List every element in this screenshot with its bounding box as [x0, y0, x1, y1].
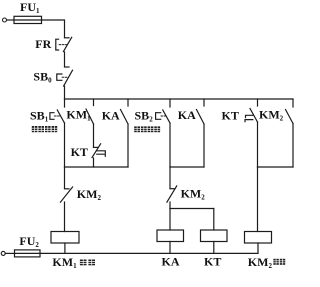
- white texture lines over Chinese blocks: [32, 126, 285, 265]
- svg-text:KM2: KM2: [259, 108, 284, 123]
- wire coil KT to bottom bus: [213, 242, 215, 254]
- wire coil KM2 to bottom bus: [257, 243, 259, 253]
- fuse FU2: [15, 250, 41, 257]
- wire KA contact to junction J1: [127, 124, 129, 167]
- fuse FU1: [14, 16, 42, 23]
- junction J3 wire: [258, 166, 294, 168]
- wire KM1 contact to KT contact: [93, 124, 95, 147]
- wire SB0 to top bus: [64, 86, 66, 99]
- wire down to coil KT: [213, 209, 215, 231]
- svg-text:SB1: SB1: [30, 108, 49, 123]
- wire coil KM1 to bottom bus: [64, 243, 66, 253]
- terminal (bottom input): [1, 251, 5, 255]
- stop pushbutton SB0 (NC): [57, 67, 73, 86]
- svg-text:FU1: FU1: [20, 0, 40, 15]
- svg-text:KT: KT: [204, 255, 221, 269]
- wire KT row contact to junction J3: [257, 122, 259, 167]
- svg-text:KA: KA: [178, 108, 196, 122]
- wire SB1 to junction J1: [64, 123, 66, 167]
- svg-text:SB2: SB2: [135, 108, 154, 123]
- junction J1 wire: [65, 166, 129, 168]
- wire J1 to KM2 interlock: [64, 167, 66, 189]
- svg-text:KT: KT: [71, 145, 88, 159]
- wire J2 to KM2 interlock 2: [169, 167, 171, 189]
- svg-text:FU2: FU2: [19, 234, 39, 249]
- feed wire to KA and KT coils: [170, 208, 214, 210]
- wire KM2 interlock to coil KM1: [64, 202, 66, 232]
- svg-text:KM2: KM2: [77, 187, 102, 202]
- coil KA: [157, 230, 184, 242]
- note text: high speed (Chinese): [273, 259, 285, 265]
- coil KM1: [51, 232, 79, 244]
- contact KM1 aux (NO): [86, 99, 94, 124]
- contact KA aux (NO, first): [121, 99, 129, 124]
- wire fuse FU1 to corner to FR: [42, 20, 65, 38]
- wire terminal to fuse FU1: [7, 19, 14, 21]
- wire KM2 interlock 2 to feed node: [169, 202, 171, 209]
- svg-text:KM1: KM1: [66, 108, 91, 123]
- wire KT contact to junction J1: [93, 158, 95, 167]
- wire down to coil KA: [169, 209, 171, 231]
- start pushbutton SB1 (NO, low speed): [50, 99, 65, 123]
- note text: low speed (Chinese): [80, 260, 95, 266]
- wire coil KA to bottom bus: [169, 242, 171, 254]
- note text: low speed start (Chinese): [32, 126, 57, 132]
- svg-text:KA: KA: [162, 254, 180, 268]
- wire SB2 to junction J2: [169, 123, 171, 167]
- interlock contact KM2 (NC): [60, 187, 72, 202]
- contact KM2 aux self-hold (NO): [286, 99, 294, 124]
- svg-text:SB0: SB0: [33, 69, 52, 84]
- coil KM2: [245, 232, 272, 244]
- coil KT: [201, 230, 228, 242]
- top bus wire: [65, 98, 294, 100]
- svg-text:FR: FR: [35, 37, 51, 51]
- wire KM2 self-hold to junction J3: [292, 124, 294, 168]
- svg-text:KM2: KM2: [181, 187, 206, 202]
- wire J3 to coil KM2: [257, 167, 259, 232]
- svg-text:KT: KT: [222, 109, 239, 123]
- time relay contact KT (NO delayed closing): [245, 99, 258, 122]
- bottom bus wire: [40, 252, 258, 254]
- svg-text:KM1: KM1: [52, 255, 77, 270]
- wire KA second contact to junction J2: [203, 124, 205, 167]
- interlock contact KM2 (NC, second): [167, 186, 177, 202]
- note text: high speed start (Chinese): [134, 126, 160, 132]
- svg-text:KA: KA: [102, 108, 120, 122]
- terminal (top input): [3, 18, 7, 22]
- start pushbutton SB2 (NO, high speed): [156, 99, 170, 123]
- thermal relay contact FR (NC): [56, 37, 72, 51]
- svg-text:KM2: KM2: [248, 255, 273, 270]
- time relay contact KT (NC delayed): [92, 144, 105, 158]
- wire FR to SB0: [64, 52, 66, 67]
- junction J2 wire: [170, 166, 204, 168]
- contact KA aux (NO, second): [197, 99, 205, 124]
- wire terminal to fuse FU2: [5, 252, 14, 254]
